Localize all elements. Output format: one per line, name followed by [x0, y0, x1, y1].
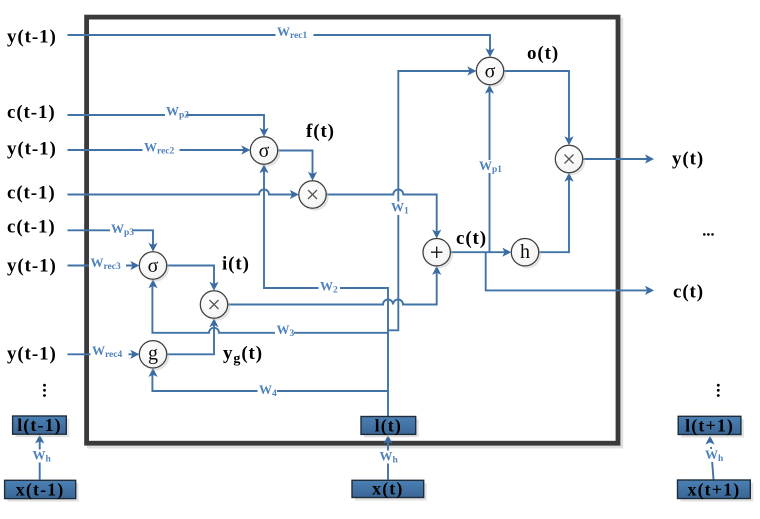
svg-text:c(t-1): c(t-1)	[7, 183, 56, 204]
svg-text:x(t-1): x(t-1)	[16, 480, 65, 501]
svg-text:l(t-1): l(t-1)	[17, 415, 62, 436]
svg-text:x(t): x(t)	[372, 479, 403, 500]
svg-text:c(t): c(t)	[673, 282, 704, 303]
svg-text:c(t-1): c(t-1)	[7, 102, 56, 123]
svg-text:f(t): f(t)	[306, 121, 335, 142]
svg-text:σ: σ	[485, 60, 496, 82]
svg-text:σ: σ	[148, 255, 159, 277]
svg-text:y(t-1): y(t-1)	[7, 139, 57, 160]
svg-text:o(t): o(t)	[527, 43, 559, 64]
svg-text:c(t-1): c(t-1)	[7, 217, 56, 238]
svg-text:yg(t): yg(t)	[223, 343, 263, 367]
svg-text:l(t): l(t)	[375, 416, 402, 437]
svg-text:y(t-1): y(t-1)	[7, 255, 57, 276]
svg-text:h: h	[520, 241, 530, 263]
svg-text:c(t): c(t)	[456, 228, 487, 249]
svg-text:y(t): y(t)	[672, 149, 704, 170]
svg-text:x(t+1): x(t+1)	[687, 479, 740, 500]
svg-text:y(t-1): y(t-1)	[7, 344, 57, 365]
svg-text:g: g	[148, 343, 158, 365]
svg-text:l(t+1): l(t+1)	[685, 415, 734, 436]
svg-text:i(t): i(t)	[222, 253, 250, 274]
svg-text:σ: σ	[259, 140, 270, 162]
svg-text:y(t-1): y(t-1)	[7, 26, 57, 47]
